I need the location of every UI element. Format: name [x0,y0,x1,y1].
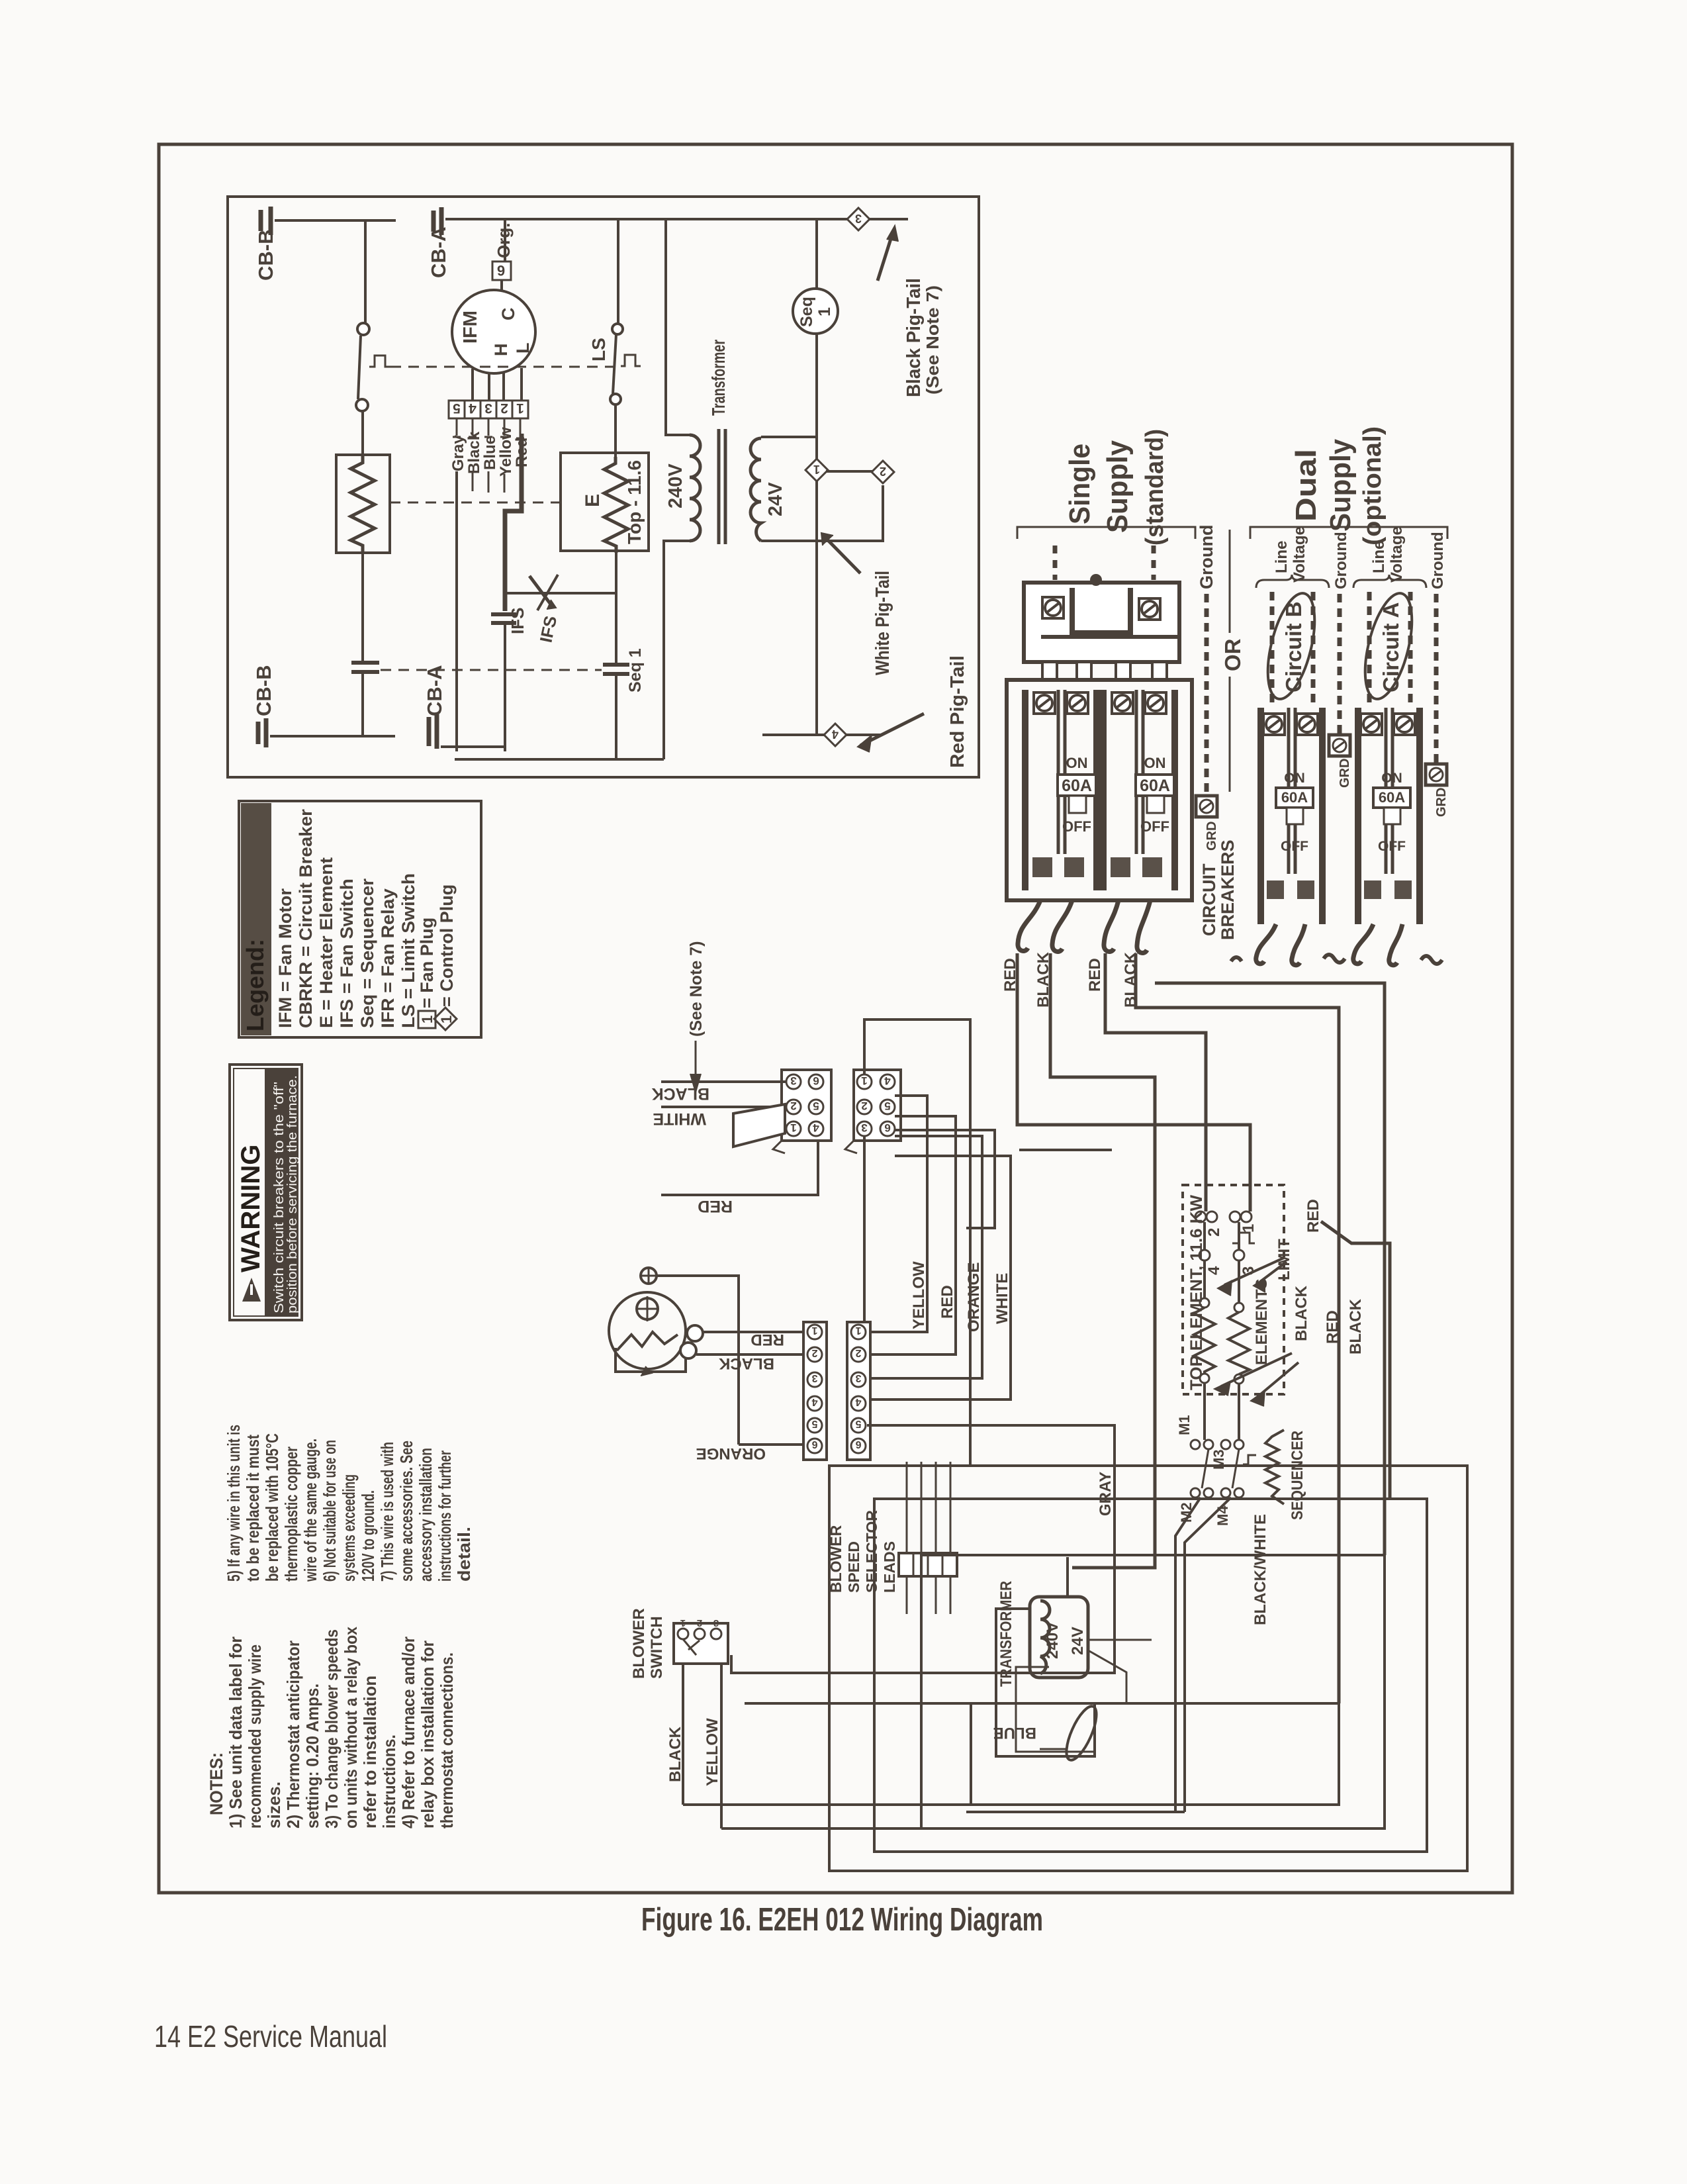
brace A [1353,575,1426,588]
arrow to black pig-tail [878,230,893,281]
wire plug2 bottom right [895,1130,995,1228]
transformer2 24V output wires [1089,1639,1152,1641]
wire white supply [661,1106,786,1108]
svg-text:OFF: OFF [1062,818,1091,835]
svg-text:Seq: Seq [798,297,816,327]
svg-text:1: 1 [815,307,834,316]
svg-text:Black: Black [465,431,483,474]
resistor zigzag E element [604,457,628,553]
2-pole breaker 2 [1103,690,1175,890]
wire loop R3 [874,1499,1427,1852]
schematic enclosure box [228,197,979,777]
svg-text:2: 2 [1205,1228,1223,1237]
svg-text:Transformer: Transformer [708,340,729,416]
wire IFS to bottom [504,623,506,751]
svg-text:2: 2 [790,1100,796,1112]
svg-text:sizes.: sizes. [264,1781,284,1828]
blower switch box [674,1623,728,1664]
svg-text:4) Refer to furnace and/or: 4) Refer to furnace and/or [398,1637,418,1828]
svg-text:Line: Line [1370,541,1388,573]
thermostat mercury bulb [637,1298,658,1319]
svg-text:BLUE: BLUE [993,1724,1036,1742]
svg-text:Ground: Ground [1332,532,1350,589]
svg-text:systems exceeding: systems exceeding [339,1474,359,1582]
wires terminals [1205,1222,1239,1303]
svg-text:ON: ON [1144,755,1166,771]
wire Seq1 to bottom rail [615,675,617,759]
svg-text:some accessories. See: some accessories. See [396,1441,416,1582]
switch S1 (CBRKR contact) [357,323,369,335]
svg-text:BLACK: BLACK [666,1726,684,1782]
svg-text:Line: Line [1273,541,1291,573]
bracket over single supply [1017,527,1195,539]
svg-text:Voltage: Voltage [1388,526,1406,583]
transformer primary coil 240V [690,435,700,541]
svg-text:Voltage: Voltage [1291,526,1308,583]
single supply breaker box [1007,680,1192,900]
element terminal 3 [1234,1250,1244,1260]
svg-text:C: C [498,308,518,321]
svg-text:BLACK: BLACK [1122,951,1140,1008]
transformer primary feed [666,219,690,435]
svg-text:WHITE: WHITE [993,1273,1011,1324]
wire capacitor to bottom rail [361,673,364,736]
legend line control plug [434,884,457,1030]
svg-text:1) See unit data label for: 1) See unit data label for [226,1637,246,1828]
svg-text:1: 1 [680,1617,686,1629]
svg-text:60A: 60A [1379,789,1405,806]
svg-text:CIRCUIT: CIRCUIT [1199,863,1219,936]
svg-text:SWITCH: SWITCH [648,1616,666,1679]
svg-text:6: 6 [811,1439,817,1450]
wire secondary top to Seq line [761,436,817,438]
wire blower switch yellow [720,1664,723,1828]
svg-text:6: 6 [884,1121,890,1134]
svg-text:ON: ON [1066,755,1088,771]
arrows from ELEMENTS label [1221,1353,1292,1386]
svg-text:GRD: GRD [1338,759,1352,788]
contact M2 [1191,1488,1200,1497]
white pig-tail arrow [824,536,860,573]
svg-text:Dual: Dual [1290,449,1322,522]
element resistor right [1234,1303,1244,1312]
wire to far right vertical [1155,983,1385,1555]
svg-text:position before servicing the: position before servicing the furnace. [285,1075,300,1313]
svg-text:detail.: detail. [454,1527,474,1582]
svg-text:BREAKERS: BREAKERS [1218,839,1238,940]
fan plug [6] box on Org wire [504,219,506,261]
selector lead wires [907,1462,950,1614]
svg-text:(See Note 7): (See Note 7) [687,941,706,1037]
svg-text:thermostat connections.: thermostat connections. [437,1652,457,1828]
wire black 2 [1136,953,1339,1703]
sequencer heater coil [1265,1430,1284,1504]
svg-text:E: E [582,494,604,507]
svg-text:relay box installation for: relay box installation for [418,1640,437,1828]
svg-text:OFF: OFF [1378,839,1406,854]
svg-text:instructions.: instructions. [379,1734,399,1828]
legend line fan plug [417,918,437,1028]
wire black supply [661,1080,786,1083]
svg-text:WHITE: WHITE [653,1110,706,1128]
heater element (left, CB-B side) box [336,455,390,553]
fan motor IFM circle [452,290,535,373]
wire red 1 [1017,953,1250,1211]
wire CB-A bottom rail [441,745,505,748]
wire bottom pig-tail rail [762,734,882,736]
selector leads block [899,1553,957,1576]
dashed leads above pull-out [1053,546,1058,580]
wire loop R4 [829,1466,1467,1871]
svg-text:2: 2 [880,465,886,478]
svg-text:BLACK: BLACK [652,1084,710,1103]
svg-text:240V: 240V [1044,1622,1062,1659]
wire blue lead stub [488,471,490,493]
element terminal pair 2 [1195,1211,1206,1222]
wire from top terminal [657,1276,739,1445]
wire CB-B bottom rail [270,735,395,737]
svg-text:Single: Single [1064,444,1096,524]
transformer2 240V coil [1040,1601,1050,1674]
svg-text:TRANSFORMER: TRANSFORMER [997,1581,1015,1687]
svg-text:RED: RED [1086,958,1104,992]
svg-text:4: 4 [832,728,839,741]
svg-text:3: 3 [1240,1266,1257,1275]
svg-text:OFF: OFF [1140,818,1169,835]
thermostat body circle [609,1292,686,1369]
transformer2 primary lead loop [996,1609,1095,1756]
plug block 1 [782,1070,831,1141]
wire LS to E element [614,404,617,461]
svg-text:2: 2 [811,1347,817,1358]
svg-text:BLACK: BLACK [1347,1298,1365,1354]
svg-text:YELLOW: YELLOW [910,1261,928,1329]
svg-text:wire of the same gauge.: wire of the same gauge. [300,1439,320,1582]
svg-text:Figure 16. E2EH 012 Wiring Dia: Figure 16. E2EH 012 Wiring Diagram [641,1902,1043,1938]
svg-text:CB-A: CB-A [427,227,450,279]
wire black 1 [1050,953,1155,1568]
svg-text:4: 4 [1205,1266,1223,1275]
svg-text:Red Pig-Tail: Red Pig-Tail [947,655,968,768]
wire red 2 [1105,953,1206,1211]
limit switch mark [1232,1233,1255,1243]
dashed link line upper [390,366,614,368]
svg-text:24V: 24V [765,482,786,516]
heater element E box [561,453,649,551]
svg-text:3: 3 [713,1617,719,1629]
svg-text:ELEMENTS: ELEMENTS [1253,1278,1271,1365]
svg-text:7) This wire is used with: 7) This wire is used with [377,1442,397,1582]
control transformer coil box [1030,1597,1088,1678]
svg-text:1: 1 [516,401,524,416]
svg-text:1: 1 [855,1325,861,1336]
circuit breaker CB-B bottom capacitor [258,718,266,747]
svg-text:ON: ON [1284,771,1305,786]
svg-text:setting: 0.20 Amps.: setting: 0.20 Amps. [302,1684,322,1828]
svg-text:L: L [513,343,533,354]
svg-text:= Fan Plug: = Fan Plug [417,918,437,1008]
svg-text:IFS = Fan Switch: IFS = Fan Switch [337,878,357,1028]
svg-text:M4: M4 [1214,1505,1231,1526]
wire nut ellipse [1060,1703,1102,1764]
legend header bar [241,803,271,1035]
wire sequencer bottom rail [966,1811,1185,1813]
wire from limit red to R3 [1321,1221,1390,1499]
svg-text:(standard): (standard) [1141,429,1169,546]
svg-text:5: 5 [884,1100,890,1112]
wire red run [868,1116,956,1354]
svg-text:CB-B: CB-B [252,665,275,717]
dashed top element box [1183,1185,1284,1394]
contact levers [1202,1449,1239,1488]
svg-text:Seq = Sequencer: Seq = Sequencer [357,878,377,1028]
svg-text:Yellow: Yellow [497,427,515,477]
svg-text:CB-B: CB-B [254,230,277,281]
pull-out handle unit [1024,583,1179,662]
warning dark band [265,1068,298,1316]
thermostat side terminals [687,1325,703,1341]
OR divider line [1229,530,1231,792]
svg-text:4: 4 [469,401,477,416]
svg-text:2: 2 [861,1100,867,1112]
svg-text:CBRKR = Circuit Breaker: CBRKR = Circuit Breaker [296,809,316,1028]
svg-text:recommended supply wire: recommended supply wire [245,1644,265,1828]
svg-text:1: 1 [811,1325,817,1336]
svg-text:IFS: IFS [508,608,527,634]
dashed link line mid [390,502,559,504]
svg-text:2) Thermostat anticipator: 2) Thermostat anticipator [283,1640,303,1828]
capacitor Seq contact (left) [351,663,379,672]
svg-text:thermoplastic copper: thermoplastic copper [281,1447,301,1582]
sequencer coil circle Seq 1 [793,289,838,334]
svg-text:5) If any wire in this unit is: 5) If any wire in this unit is [224,1425,244,1582]
svg-text:WARNING: WARNING [236,1145,265,1272]
svg-text:GRAY: GRAY [1097,1472,1115,1516]
svg-text:= Control Plug: = Control Plug [437,884,457,1007]
wire primary bottom return [664,541,690,759]
svg-text:5: 5 [813,1100,819,1112]
wire black to strip1 [696,1353,807,1356]
wire secondary bottom to diamond 2 [761,485,883,541]
svg-text:to be replaced it must: to be replaced it must [243,1435,263,1582]
squiggle wires under single supply [1018,900,1040,951]
resistor zigzag left element [351,455,375,553]
element terminal 4 [1199,1250,1210,1260]
wire gray lead down to rail [455,471,458,751]
wire M4 down [1185,1497,1231,1812]
terminal strip 2 [847,1322,870,1460]
svg-text:Top - 11.6: Top - 11.6 [624,460,645,544]
transformer secondary coil 24V [751,438,761,541]
wire M2 down [1175,1497,1201,1812]
sequencer Seq 1 branch [815,219,818,735]
svg-text:RED: RED [1324,1310,1342,1344]
svg-text:SELECTOR: SELECTOR [863,1510,880,1593]
wire E to Seq1 capacitor [615,551,617,664]
limit switch LS branch [617,219,619,324]
svg-text:240V: 240V [665,463,686,508]
control plug diamond 4 [824,724,846,746]
white flag wedge [733,1104,785,1147]
transformer core [719,429,725,544]
svg-text:ORANGE: ORANGE [696,1445,766,1462]
circuit breaker CB-A bottom capacitor [429,714,437,749]
thermostat bimetal zigzag [617,1332,678,1351]
svg-text:Gray: Gray [449,435,467,471]
circuit breaker CB-B top capacitor [261,207,271,235]
thermostat base lines [616,1348,686,1372]
svg-text:3) To change blower speeds: 3) To change blower speeds [322,1629,342,1828]
svg-text:1: 1 [419,1016,435,1023]
wire red supply [661,1141,818,1195]
svg-text:GRD: GRD [1205,822,1219,851]
arrows from LIMIT label [1224,1258,1284,1285]
wire drop to switch [364,220,367,323]
element terminal pair 1 [1230,1211,1240,1222]
control plug diamond 2 [872,461,894,483]
svg-text:14 E2 Service Manual: 14 E2 Service Manual [154,2019,387,2054]
svg-text:accessory installation: accessory installation [416,1448,435,1582]
svg-text:LS = Limit Switch: LS = Limit Switch [398,873,418,1028]
svg-text:Red: Red [513,438,531,467]
svg-text:4: 4 [884,1074,891,1087]
wire lower rail to transformer [455,758,664,761]
blue wire stub [1040,1748,1068,1750]
wire stubs below strip [457,418,520,437]
contact M3 [1221,1440,1230,1449]
svg-text:GRD: GRD [1434,788,1449,817]
svg-text:3: 3 [855,1372,861,1384]
svg-text:1: 1 [861,1074,867,1087]
svg-text:refer to installation: refer to installation [360,1676,380,1828]
wire plug2 left col down to strip2 [863,1136,866,1321]
svg-text:5: 5 [811,1418,817,1429]
svg-text:6) Not suitable for use on: 6) Not suitable for use on [320,1440,340,1582]
pull-out screws [1042,597,1064,618]
wires IFM to terminal strip [473,368,522,401]
svg-text:E = Heater Element: E = Heater Element [316,857,336,1028]
svg-text:Ground: Ground [1429,532,1447,589]
wire yellow lead stub [504,474,506,493]
svg-text:3: 3 [811,1372,817,1384]
fan-plug step mark on dashed link [369,356,390,367]
svg-text:LEADS: LEADS [881,1541,898,1593]
svg-text:3: 3 [861,1121,867,1134]
circuit breaker CB-A top capacitor [433,207,441,235]
wire blower switch black [682,1664,684,1805]
wire R1 top extension [745,1702,971,1705]
IFS adjustable switch slash [529,576,553,608]
svg-text:CB-A: CB-A [423,665,446,717]
svg-text:ORANGE: ORANGE [965,1262,983,1332]
svg-text:BLACK: BLACK [1293,1285,1310,1341]
capacitor Seq 1 [603,665,629,674]
arrow below see note 7 [695,1041,697,1086]
svg-text:YELLOW: YELLOW [704,1718,721,1786]
svg-text:IFR = Fan Relay: IFR = Fan Relay [378,888,398,1028]
element resistor left [1200,1298,1209,1307]
svg-text:60A: 60A [1062,777,1092,795]
GRD box single [1196,796,1217,817]
svg-text:3: 3 [790,1074,796,1087]
svg-text:BLOWER: BLOWER [630,1608,648,1679]
svg-text:M2: M2 [1178,1502,1195,1523]
svg-text:RED: RED [1304,1199,1322,1233]
svg-text:be replaced with 105°C: be replaced with 105°C [262,1433,282,1582]
plug 1 contacts [786,1074,801,1089]
control plug diamond 1 [805,459,828,481]
svg-text:Supply: Supply [1101,440,1134,533]
svg-text:TOP ELEMENT, 11.6 KW: TOP ELEMENT, 11.6 KW [1187,1195,1206,1390]
wire gray run [731,1425,1115,1673]
svg-text:24V: 24V [1069,1627,1087,1655]
svg-text:White Pig-Tail: White Pig-Tail [872,571,893,675]
2-pole breaker 1 [1025,690,1097,890]
wire CB-B top rail [275,219,396,222]
svg-text:2: 2 [500,401,508,416]
wire plug2 to lower right box [864,1020,970,1466]
svg-text:1: 1 [438,1016,455,1023]
label tick marks [453,437,524,438]
circuit B breaker [1256,708,1345,965]
svg-text:RED: RED [938,1285,956,1319]
svg-text:Legend:: Legend: [242,939,269,1031]
svg-text:6: 6 [855,1439,861,1450]
svg-text:Supply: Supply [1324,439,1357,532]
wire orange to strip1 [739,1443,807,1446]
red pig-tail arrow [860,714,924,745]
svg-text:120V to ground.: 120V to ground. [358,1490,378,1582]
svg-text:(See Note 7): (See Note 7) [923,285,942,395]
svg-text:Circuit A: Circuit A [1379,602,1403,692]
dashed link line lower [381,669,602,671]
svg-text:RED: RED [1001,958,1019,992]
control plug diamond 3 [847,208,870,230]
pull-out tabs [1042,662,1057,680]
dashed line voltage wires B [1272,592,1313,708]
wires elements to sequencer [1205,1383,1239,1440]
svg-text:BLACK: BLACK [718,1354,774,1372]
contact M1 [1191,1440,1200,1449]
wire switch to resistor box [361,411,364,455]
svg-text:5: 5 [855,1418,861,1429]
svg-text:1: 1 [790,1121,796,1134]
svg-text:instructions for further: instructions for further [435,1450,455,1582]
transformer2 feed from top [1066,1557,1069,1597]
bracket over dual supply [1250,527,1447,539]
svg-text:6: 6 [497,262,505,279]
svg-text:3: 3 [484,401,492,416]
wire orange run [868,1136,982,1378]
svg-text:Seq 1: Seq 1 [626,648,645,692]
contact M4 [1221,1488,1230,1497]
dashed ground single [1205,594,1209,792]
page border frame [159,144,1512,1893]
wire blower yellow to loop [721,1827,921,1830]
wire diamond1 to diamond2 [826,470,872,473]
wire red lead (thick) to IFS branch [505,434,522,611]
svg-text:RED: RED [698,1197,733,1215]
svg-text:Circuit B: Circuit B [1281,601,1306,692]
svg-text:NOTES:: NOTES: [206,1752,226,1815]
svg-text:60A: 60A [1140,777,1170,795]
svg-text:1: 1 [813,463,820,476]
svg-text:OFF: OFF [1281,839,1308,854]
circuit A breaker [1231,708,1442,965]
svg-text:M1: M1 [1176,1415,1193,1435]
svg-text:Black Pig-Tail: Black Pig-Tail [903,278,925,397]
svg-text:H: H [491,344,511,357]
